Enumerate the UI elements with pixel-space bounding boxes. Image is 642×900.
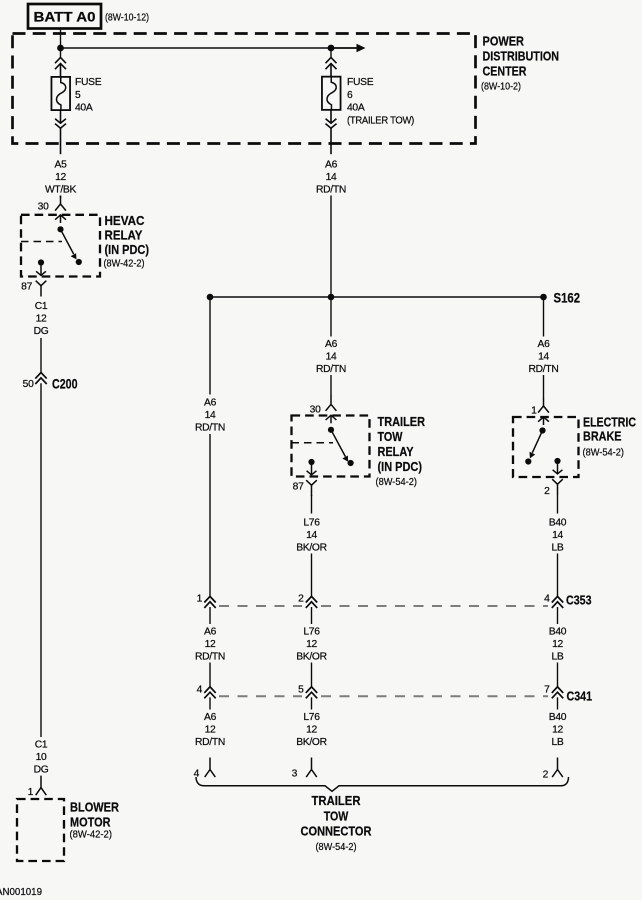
trailer tow relay label [376, 415, 426, 488]
C353 pin 4 connector [552, 596, 563, 608]
HEVAC relay common contact node [57, 226, 63, 232]
pin 1 connector into electric brake [538, 398, 549, 426]
connector C341 dashed line [219, 695, 548, 697]
HEVAC relay internal cut line [21, 241, 62, 243]
svg-text:7: 7 [544, 685, 550, 696]
svg-text:C341: C341 [567, 689, 593, 704]
wire label A6 12 RD/TN [195, 712, 225, 748]
svg-text:WT/BK: WT/BK [45, 185, 77, 196]
svg-text:(8W-54-2): (8W-54-2) [583, 447, 625, 459]
svg-text:A6: A6 [538, 339, 551, 350]
svg-text:12: 12 [552, 639, 563, 650]
svg-text:14: 14 [538, 352, 549, 363]
wire down to C341 pin 4 [209, 663, 211, 687]
svg-text:L76: L76 [303, 627, 320, 638]
svg-text:5: 5 [75, 90, 81, 101]
wire top feed bus [61, 47, 332, 49]
svg-text:40A: 40A [75, 103, 93, 114]
svg-text:14: 14 [326, 352, 337, 363]
wire brake 2 down [557, 495, 559, 514]
arrow feed continues right [331, 44, 366, 53]
svg-text:TOW: TOW [324, 809, 349, 823]
svg-text:BK/OR: BK/OR [296, 652, 327, 663]
svg-text:B40: B40 [549, 518, 567, 529]
connector C200 [35, 373, 46, 385]
svg-text:B40: B40 [549, 627, 567, 638]
fuse 5 [51, 77, 70, 110]
blower motor pin 1 connector [36, 776, 47, 796]
svg-text:C200: C200 [52, 377, 78, 392]
wire label A6 14 RD/TN (center) [316, 339, 346, 375]
svg-text:(8W-42-2): (8W-42-2) [104, 258, 145, 270]
junction node at fuse 5 tap [57, 45, 64, 52]
wire label C1 10 DG [34, 740, 49, 776]
electric brake pin 2 exit connector [552, 458, 563, 495]
svg-text:50: 50 [23, 379, 34, 390]
wire label B40 14 LB [549, 518, 567, 554]
wire label L76 12 BK/OR [296, 627, 327, 663]
svg-text:BK/OR: BK/OR [296, 543, 327, 554]
svg-text:(8W-10-12): (8W-10-12) [105, 12, 149, 23]
wire fuse 6 to splice bus [330, 196, 332, 298]
trailer tow connector brace [196, 777, 569, 791]
splice bus S162 [210, 296, 544, 298]
trailer tow relay common contact node [328, 427, 334, 433]
svg-text:BRAKE: BRAKE [583, 429, 622, 444]
svg-text:DG: DG [34, 326, 49, 337]
svg-text:40A: 40A [347, 103, 365, 114]
svg-text:LB: LB [552, 543, 564, 554]
svg-text:AN001019: AN001019 [0, 886, 42, 898]
svg-text:4: 4 [544, 594, 550, 605]
svg-text:14: 14 [326, 172, 337, 183]
trailer tow relay pin 87 exit connector [306, 459, 317, 496]
svg-text:12: 12 [306, 725, 317, 736]
svg-text:12: 12 [552, 725, 563, 736]
fuse 6 value label [347, 77, 414, 127]
svg-text:C353: C353 [566, 593, 592, 608]
svg-text:TOW: TOW [378, 430, 403, 444]
svg-text:5: 5 [298, 685, 304, 696]
wire DG down to C200 [40, 338, 42, 372]
svg-text:RD/TN: RD/TN [316, 185, 346, 196]
trailer tow relay internal cut line [292, 442, 334, 444]
battery feed box BATT A0 [28, 4, 101, 29]
svg-text:1: 1 [28, 787, 34, 798]
svg-text:30: 30 [310, 405, 321, 416]
svg-text:FUSE: FUSE [75, 77, 102, 88]
svg-text:A5: A5 [55, 160, 68, 171]
wire S162 to electric brake [543, 297, 545, 337]
wire label A5 12 WT/BK [45, 160, 77, 196]
wire C341-7 to label [557, 697, 559, 709]
pin 30 connector into trailer tow relay [326, 396, 337, 424]
wire junction to fuse 5 [60, 48, 62, 58]
svg-text:87: 87 [21, 282, 32, 293]
splice node S162 [540, 294, 547, 301]
wire label A6 14 RD/TN (left) [195, 398, 225, 434]
svg-text:14: 14 [205, 410, 216, 421]
wire C353-4 to label [557, 607, 559, 624]
trailer tow relay NO contact node [348, 460, 354, 466]
electric brake label [583, 415, 637, 459]
splice node center [328, 294, 335, 301]
wire S162 to trailer tow relay [330, 297, 332, 337]
svg-text:RD/TN: RD/TN [529, 364, 559, 375]
svg-text:BK/OR: BK/OR [296, 737, 327, 748]
svg-text:(8W-10-2): (8W-10-2) [481, 81, 521, 93]
C353 pin 2 connector [306, 596, 317, 608]
pin 30 connector into HEVAC relay [55, 196, 66, 224]
svg-text:MOTOR: MOTOR [70, 816, 111, 830]
svg-text:RD/TN: RD/TN [195, 737, 225, 748]
electric brake switch common node [539, 427, 545, 433]
svg-text:DG: DG [34, 765, 49, 776]
svg-text:CENTER: CENTER [483, 64, 527, 79]
svg-text:87: 87 [293, 482, 304, 493]
wire C353-1 to label [209, 607, 211, 624]
svg-text:10: 10 [36, 752, 47, 763]
svg-text:TRAILER: TRAILER [378, 415, 426, 429]
svg-text:L76: L76 [303, 518, 320, 529]
svg-text:RELAY: RELAY [378, 445, 415, 459]
trailer connector pin 2 [552, 758, 563, 778]
wire label L76 14 BK/OR [296, 518, 327, 554]
svg-text:HEVAC: HEVAC [105, 214, 145, 228]
C341 pin 4 connector [204, 687, 215, 699]
HEVAC relay pin 87 exit connector [36, 259, 47, 296]
splice node left [207, 294, 214, 301]
wire C341-4 to label [209, 697, 211, 709]
svg-text:14: 14 [306, 530, 317, 541]
wire A6 left branch S162 to C353 [209, 297, 211, 395]
svg-text:2: 2 [543, 770, 549, 781]
wire BATT A0 down to junction [60, 28, 62, 48]
blower motor label [70, 801, 120, 841]
wire junction to fuse 6 [330, 48, 332, 58]
svg-text:6: 6 [347, 90, 353, 101]
svg-text:LB: LB [552, 652, 564, 663]
power distribution center dashed box [13, 34, 476, 144]
wire A5 to HEVAC relay [60, 196, 62, 199]
svg-text:12: 12 [205, 725, 216, 736]
svg-text:DISTRIBUTION: DISTRIBUTION [483, 49, 560, 64]
wire label A6 12 RD/TN [195, 627, 225, 663]
svg-text:A6: A6 [325, 160, 338, 171]
wire down to C353 pin 2 [311, 554, 313, 597]
wire label B40 12 LB [549, 712, 567, 748]
wire C200 down to blower motor [40, 383, 42, 737]
svg-text:ELECTRIC: ELECTRIC [583, 415, 636, 430]
svg-text:BATT A0: BATT A0 [34, 9, 96, 24]
HEVAC relay dashed box [21, 215, 100, 277]
svg-text:RD/TN: RD/TN [316, 364, 346, 375]
svg-text:RD/TN: RD/TN [195, 423, 225, 434]
power distribution center label [481, 34, 559, 93]
trailer tow connector label [301, 794, 372, 853]
svg-text:(8W-54-2): (8W-54-2) [316, 841, 357, 853]
HEVAC relay NO contact node [76, 259, 82, 265]
svg-text:1: 1 [531, 406, 537, 417]
wire C353-2 to label [311, 607, 313, 624]
svg-text:S162: S162 [554, 291, 581, 306]
connector below fuse 6 [326, 110, 337, 154]
junction node at fuse 6 tap [328, 45, 335, 52]
svg-text:RD/TN: RD/TN [195, 652, 225, 663]
connector below fuse 5 [55, 110, 66, 154]
svg-text:3: 3 [292, 769, 298, 780]
svg-text:BLOWER: BLOWER [70, 801, 119, 815]
svg-text:C1: C1 [35, 740, 48, 751]
wire C341-5 to label [311, 697, 313, 709]
wire down to C341 pin 5 [311, 663, 313, 687]
wire label B40 12 LB [549, 627, 567, 663]
C341 pin 5 connector [306, 687, 317, 699]
svg-text:1: 1 [197, 594, 203, 605]
wire to relay pin 30 [330, 375, 332, 396]
wire down to C353 pin 4 [557, 554, 559, 597]
blower motor dashed box [17, 799, 64, 861]
svg-text:(TRAILER TOW): (TRAILER TOW) [347, 116, 414, 127]
HEVAC relay switch blade [61, 229, 77, 259]
trailer tow relay dashed box [292, 416, 370, 477]
wire relay 87 down [311, 495, 313, 514]
svg-text:(IN PDC): (IN PDC) [105, 243, 150, 257]
connector above fuse 6 [326, 58, 337, 78]
electric brake contact node [525, 458, 531, 464]
electric brake dashed box [513, 417, 579, 477]
svg-text:RELAY: RELAY [105, 229, 144, 243]
svg-text:C1: C1 [35, 301, 48, 312]
wire label A6 14 RD/TN (right) [529, 339, 559, 375]
wire down to C353 pin 1 [209, 434, 211, 596]
svg-text:A6: A6 [204, 712, 217, 723]
svg-text:30: 30 [38, 202, 49, 213]
svg-text:12: 12 [55, 172, 66, 183]
trailer tow relay switch blade [331, 430, 348, 462]
trailer connector pin 4 [205, 758, 216, 778]
connector above fuse 5 [55, 58, 66, 78]
svg-text:12: 12 [36, 314, 47, 325]
svg-text:L76: L76 [303, 712, 320, 723]
svg-text:LB: LB [552, 737, 564, 748]
wire label A6 14 RD/TN (below fuse 6) [316, 160, 346, 196]
C341 pin 7 connector [552, 687, 563, 699]
svg-text:POWER: POWER [483, 34, 525, 49]
svg-text:CONNECTOR: CONNECTOR [301, 825, 372, 839]
C353 pin 1 connector [204, 596, 215, 608]
svg-text:12: 12 [205, 639, 216, 650]
electric brake switch blade [530, 431, 543, 459]
svg-text:14: 14 [552, 530, 563, 541]
wire to brake pin 1 [543, 375, 545, 398]
svg-text:A6: A6 [204, 627, 217, 638]
svg-text:2: 2 [298, 594, 304, 605]
svg-text:4: 4 [197, 685, 203, 696]
wire label L76 12 BK/OR [296, 712, 327, 748]
svg-text:TRAILER: TRAILER [312, 794, 361, 808]
svg-text:A6: A6 [325, 339, 338, 350]
fuse 6 [322, 77, 341, 110]
svg-text:12: 12 [306, 639, 317, 650]
trailer connector pin 3 [306, 758, 317, 778]
svg-text:(8W-42-2): (8W-42-2) [70, 829, 113, 841]
fuse 5 value label [75, 77, 102, 114]
svg-text:A6: A6 [204, 398, 217, 409]
wire down to C341 pin 7 [557, 663, 559, 687]
svg-text:2: 2 [544, 486, 550, 497]
svg-text:(8W-54-2): (8W-54-2) [376, 476, 418, 488]
wire label C1 12 DG [34, 301, 49, 337]
svg-text:FUSE: FUSE [347, 77, 374, 88]
connector C353 dashed line [219, 605, 548, 607]
HEVAC relay label [104, 214, 150, 270]
svg-text:(IN PDC): (IN PDC) [378, 460, 423, 474]
svg-text:B40: B40 [549, 712, 567, 723]
